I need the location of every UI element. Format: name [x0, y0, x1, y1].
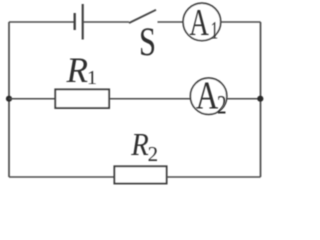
- svg-text:S: S: [139, 19, 156, 64]
- svg-text:1: 1: [87, 67, 97, 89]
- node left junction dot: [6, 96, 12, 102]
- ammeter A1 circle: [183, 3, 221, 41]
- right rail wire: [260, 22, 262, 177]
- switch S blade: [129, 10, 156, 23]
- left rail wire: [8, 22, 10, 177]
- resistor R2 box: [114, 166, 166, 183]
- ammeter A2 circle: [190, 78, 226, 114]
- wire A2 to right rail: [227, 98, 261, 100]
- svg-text:2: 2: [148, 142, 159, 166]
- svg-text:2: 2: [217, 90, 227, 119]
- svg-text:1: 1: [211, 17, 219, 44]
- wire battery to switch: [83, 21, 129, 23]
- wire bottom-left segment: [9, 176, 114, 178]
- battery (cell) long plate: [82, 4, 84, 40]
- svg-text:R: R: [66, 50, 88, 90]
- resistor R1 box: [55, 89, 109, 108]
- svg-text:R: R: [130, 126, 149, 162]
- wire middle-left segment: [9, 98, 55, 100]
- wire top-left segment: [9, 21, 74, 23]
- switch right contact wire to A1: [158, 21, 184, 23]
- wire A1 to right rail: [221, 21, 261, 23]
- svg-text:A: A: [196, 74, 219, 117]
- wire R1 to A2: [109, 98, 191, 100]
- wire R2 to right rail: [167, 176, 261, 178]
- node right junction dot: [257, 96, 263, 102]
- battery (cell) short plate: [74, 13, 76, 30]
- svg-text:A: A: [189, 2, 209, 44]
